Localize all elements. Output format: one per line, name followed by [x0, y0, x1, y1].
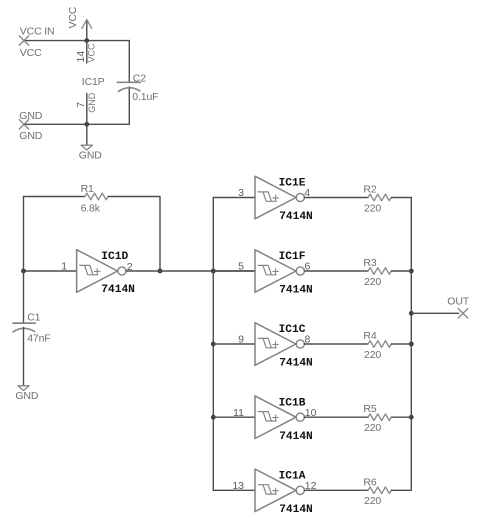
wire C1 bottom lead	[23, 328, 25, 386]
IC1C hysteresis glyph	[258, 338, 276, 347]
svg-text:7414N: 7414N	[279, 211, 313, 223]
capacitor C1 plate	[13, 322, 35, 324]
IC1P pin 14 line	[86, 41, 88, 63]
IC1D output bubble	[118, 267, 126, 275]
inverter IC1F triangle	[255, 250, 296, 293]
wire C2 branch right vertical bottom	[128, 87, 130, 124]
IC1D hysteresis glyph	[80, 265, 98, 274]
wire OUT	[411, 312, 458, 314]
junction bus IC1C row	[211, 342, 216, 347]
wire IC1D output to bus	[126, 270, 255, 272]
svg-text:VCC IN: VCC IN	[20, 25, 55, 37]
svg-text:7414N: 7414N	[279, 358, 313, 370]
svg-text:GND: GND	[79, 149, 102, 161]
supply symbol VCC arrow	[82, 19, 92, 28]
IC1B plus sign	[273, 415, 278, 420]
capacitor C1 curved plate	[13, 328, 35, 332]
resistor R3	[368, 268, 391, 275]
svg-text:7414N: 7414N	[101, 284, 135, 296]
wire left bus	[212, 198, 214, 491]
IC1F plus sign	[273, 269, 278, 274]
IC1F hysteresis glyph	[258, 265, 276, 274]
svg-text:5: 5	[238, 261, 244, 273]
junction feedback node	[158, 269, 163, 274]
svg-text:GND: GND	[87, 92, 97, 113]
IC1D plus sign	[95, 269, 100, 274]
capacitor C2 curved plate	[119, 88, 140, 92]
svg-text:GND: GND	[15, 390, 38, 402]
svg-text:220: 220	[364, 495, 381, 507]
junction right bus R4 row	[409, 342, 414, 347]
inverter IC1E triangle	[255, 176, 296, 219]
wire IC1F output to resistor	[304, 270, 368, 272]
wire IC1A output to resistor	[304, 489, 368, 491]
net flag X VCC IN	[19, 36, 28, 45]
svg-text:220: 220	[364, 422, 381, 434]
wire input IC1F	[213, 270, 255, 272]
svg-text:GND: GND	[19, 130, 42, 142]
IC1E hysteresis glyph	[258, 192, 276, 201]
junction bus IC1B row	[211, 415, 216, 420]
IC1A hysteresis glyph	[258, 485, 276, 494]
svg-text:C2: C2	[133, 72, 146, 84]
ground symbol C1	[18, 386, 29, 391]
wire R1 right lead to corner	[108, 197, 160, 272]
wire input IC1C	[213, 343, 255, 345]
svg-text:IC1E: IC1E	[279, 178, 306, 190]
svg-text:OUT: OUT	[447, 295, 469, 307]
resistor R2	[368, 194, 391, 201]
IC1E output bubble	[296, 193, 304, 201]
wire R2 to right bus	[391, 197, 411, 199]
svg-text:13: 13	[232, 480, 244, 492]
wire C1 top lead	[23, 271, 25, 323]
svg-text:C1: C1	[27, 311, 40, 323]
svg-text:R2: R2	[363, 184, 376, 196]
IC1C output bubble	[296, 340, 304, 348]
IC1P pin 7 line	[86, 94, 88, 125]
svg-text:IC1F: IC1F	[279, 251, 306, 263]
svg-text:R4: R4	[363, 330, 376, 342]
wire IC1C output to resistor	[304, 343, 368, 345]
resistor R6	[368, 487, 391, 494]
svg-text:R1: R1	[81, 183, 94, 195]
svg-text:7414N: 7414N	[279, 504, 313, 516]
svg-text:7: 7	[75, 102, 87, 108]
svg-text:R5: R5	[363, 403, 376, 415]
inverter IC1C triangle	[255, 323, 296, 366]
svg-text:220: 220	[364, 202, 381, 214]
wire IC1B output to resistor	[304, 416, 368, 418]
wire R1 left lead	[24, 196, 85, 198]
svg-text:IC1A: IC1A	[279, 471, 306, 483]
junction right bus OUT row	[409, 311, 414, 316]
svg-text:14: 14	[75, 51, 87, 63]
svg-text:VCC: VCC	[20, 47, 42, 59]
wire C2 branch right vertical top	[128, 41, 130, 83]
IC1B output bubble	[296, 413, 304, 421]
wire left vertical R1 to input	[23, 197, 25, 272]
wire R5 to right bus	[391, 416, 411, 418]
svg-text:7414N: 7414N	[279, 431, 313, 443]
net flag X OUT	[458, 309, 467, 318]
wire input to IC1D	[24, 270, 77, 272]
wire input IC1A	[213, 489, 255, 491]
wire right bus	[410, 198, 412, 491]
wire VCC top horizontal	[24, 40, 129, 42]
svg-text:47nF: 47nF	[27, 332, 50, 344]
svg-text:R3: R3	[363, 257, 376, 269]
IC1A plus sign	[273, 488, 278, 493]
svg-text:11: 11	[233, 407, 244, 419]
svg-text:VCC: VCC	[87, 43, 97, 63]
svg-text:220: 220	[364, 276, 381, 288]
net flag X GND left	[19, 120, 28, 129]
IC1A output bubble	[296, 486, 304, 494]
svg-text:IC1B: IC1B	[279, 397, 306, 409]
IC1E plus sign	[273, 195, 278, 200]
capacitor C2 plate	[117, 81, 140, 83]
svg-text:7414N: 7414N	[279, 285, 313, 297]
svg-text:220: 220	[364, 349, 381, 361]
resistor R4	[368, 341, 391, 348]
inverter IC1D triangle	[77, 250, 118, 293]
wire GND bottom horizontal	[24, 123, 129, 125]
svg-text:VCC: VCC	[67, 6, 79, 28]
wire R3 to right bus	[391, 270, 411, 272]
IC1C plus sign	[273, 342, 278, 347]
wire R4 to right bus	[391, 343, 411, 345]
junction GND	[84, 122, 89, 127]
svg-text:3: 3	[238, 187, 244, 199]
svg-text:IC1C: IC1C	[279, 324, 306, 336]
svg-text:6.8k: 6.8k	[81, 202, 101, 214]
svg-text:9: 9	[238, 334, 244, 346]
junction right bus R3 row	[409, 269, 414, 274]
svg-text:1: 1	[61, 261, 67, 273]
resistor R5	[368, 414, 391, 421]
inverter IC1B triangle	[255, 396, 296, 439]
inverter IC1A triangle	[255, 469, 296, 512]
wire IC1E output to resistor	[304, 197, 368, 199]
svg-text:GND: GND	[19, 110, 42, 122]
junction right bus R5 row	[409, 415, 414, 420]
junction VCC	[84, 38, 89, 43]
wire input IC1E	[213, 197, 255, 199]
wire to GND symbol	[86, 124, 88, 145]
svg-text:IC1P: IC1P	[82, 76, 105, 88]
wire input IC1B	[213, 416, 255, 418]
junction bus IC1F row	[211, 269, 216, 274]
IC1F output bubble	[296, 267, 304, 275]
resistor R1	[85, 193, 108, 200]
svg-text:IC1D: IC1D	[101, 251, 128, 263]
wire VCC arrow shaft	[86, 20, 88, 40]
IC1B hysteresis glyph	[258, 412, 276, 421]
svg-text:0.1uF: 0.1uF	[132, 91, 158, 103]
junction input node	[21, 269, 26, 274]
svg-text:R6: R6	[363, 476, 376, 488]
ground symbol top	[81, 145, 92, 150]
wire R6 to right bus	[391, 489, 411, 491]
